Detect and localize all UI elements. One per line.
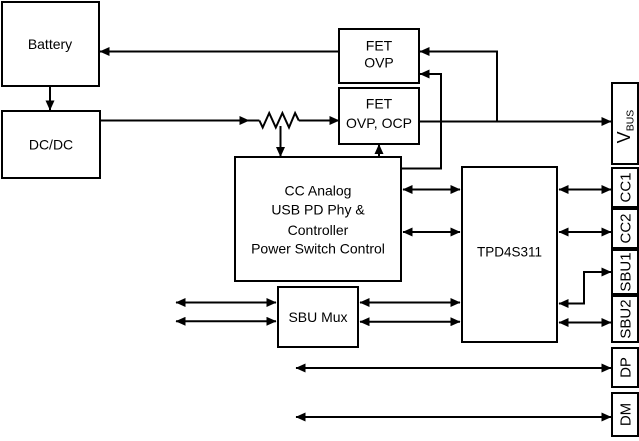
wire FET OVP output to Battery bbox=[100, 51, 339, 53]
svg-text:DM: DM bbox=[618, 403, 635, 426]
wire CC Analog up to FET OVP, OCP bottom bbox=[378, 145, 380, 158]
wire step down to TPD4S311 right edge bbox=[559, 271, 584, 304]
wire Battery to DC/DC bbox=[49, 86, 51, 110]
wire SBU Mux to TPD4S311 line 2 bbox=[360, 321, 460, 323]
connector pin VBUS bbox=[612, 83, 638, 164]
svg-text:CC1: CC1 bbox=[618, 172, 635, 202]
wire DC/DC output to resistor (with mid arrow) bbox=[100, 120, 249, 122]
wire VBUS rail: FET OVP, OCP output to VBUS pin bbox=[419, 121, 611, 123]
block FET OVP, OCP bbox=[339, 88, 419, 144]
wire step to SBU1 pin bbox=[584, 271, 611, 273]
wire SBU Mux to TPD4S311 line 1 bbox=[360, 302, 460, 304]
wire TPD4S311 to CC1 pin bbox=[559, 189, 611, 191]
connector pin DP bbox=[612, 348, 638, 387]
block FET OVP (U: FET OVP) bbox=[339, 29, 419, 83]
svg-text:DC/DC: DC/DC bbox=[29, 137, 73, 153]
wire CC Analog to TPD4S311 (CC1 path) bbox=[403, 189, 460, 191]
block CC Analog USB PD Phy & Controller Power Switch Control bbox=[235, 157, 401, 281]
svg-text:USB PD Phy &: USB PD Phy & bbox=[271, 202, 365, 218]
svg-text:OVP: OVP bbox=[364, 55, 394, 71]
connector pin SBU1 bbox=[612, 250, 638, 294]
wire DM data line to DM pin bbox=[296, 416, 611, 418]
wire SBU Mux left line 1 bbox=[176, 302, 276, 304]
wire SBU Mux left line 2 bbox=[176, 320, 276, 322]
svg-text:SBU Mux: SBU Mux bbox=[288, 309, 347, 325]
connector pin SBU2 bbox=[612, 296, 638, 342]
svg-text:SBU1: SBU1 bbox=[618, 252, 635, 291]
svg-text:TPD4S311: TPD4S311 bbox=[477, 245, 542, 260]
svg-text:Battery: Battery bbox=[28, 36, 72, 52]
block Battery bbox=[2, 2, 99, 86]
svg-text:FET: FET bbox=[366, 96, 393, 112]
connector pin CC2 bbox=[612, 209, 638, 248]
wire resistor tap down to CC Analog block bbox=[280, 126, 282, 157]
wire TPD4S311 to SBU2 pin bbox=[559, 322, 611, 324]
block TPD4S311 U1 bbox=[462, 167, 557, 342]
block SBU Mux bbox=[278, 287, 358, 347]
svg-text:Controller: Controller bbox=[288, 222, 349, 238]
svg-text:CC Analog: CC Analog bbox=[285, 183, 352, 199]
svg-text:SBU2: SBU2 bbox=[618, 299, 635, 338]
wire TPD4S311 to CC2 pin bbox=[559, 231, 611, 233]
wire VBUS rail tap up to FET OVP right input (top) bbox=[420, 52, 497, 122]
svg-text:FET: FET bbox=[366, 38, 393, 54]
svg-text:DP: DP bbox=[618, 357, 635, 378]
wire CC Analog right edge up to FET OVP right input (bottom) bbox=[401, 74, 441, 169]
svg-text:OVP, OCP: OVP, OCP bbox=[346, 115, 412, 131]
connector pin CC1 bbox=[612, 168, 638, 207]
wire CC Analog to TPD4S311 (CC2 path) bbox=[403, 231, 460, 233]
svg-text:CC2: CC2 bbox=[618, 213, 635, 243]
svg-text:Power Switch Control: Power Switch Control bbox=[251, 241, 385, 257]
wire DP data line to DP pin bbox=[296, 367, 611, 369]
wire resistor to FET OVP, OCP input bbox=[299, 120, 339, 122]
resistor R (inline zigzag) bbox=[259, 113, 298, 128]
wire resistor lead in bbox=[247, 120, 259, 122]
connector pin DM bbox=[612, 393, 638, 436]
block DC/DC bbox=[2, 111, 100, 178]
